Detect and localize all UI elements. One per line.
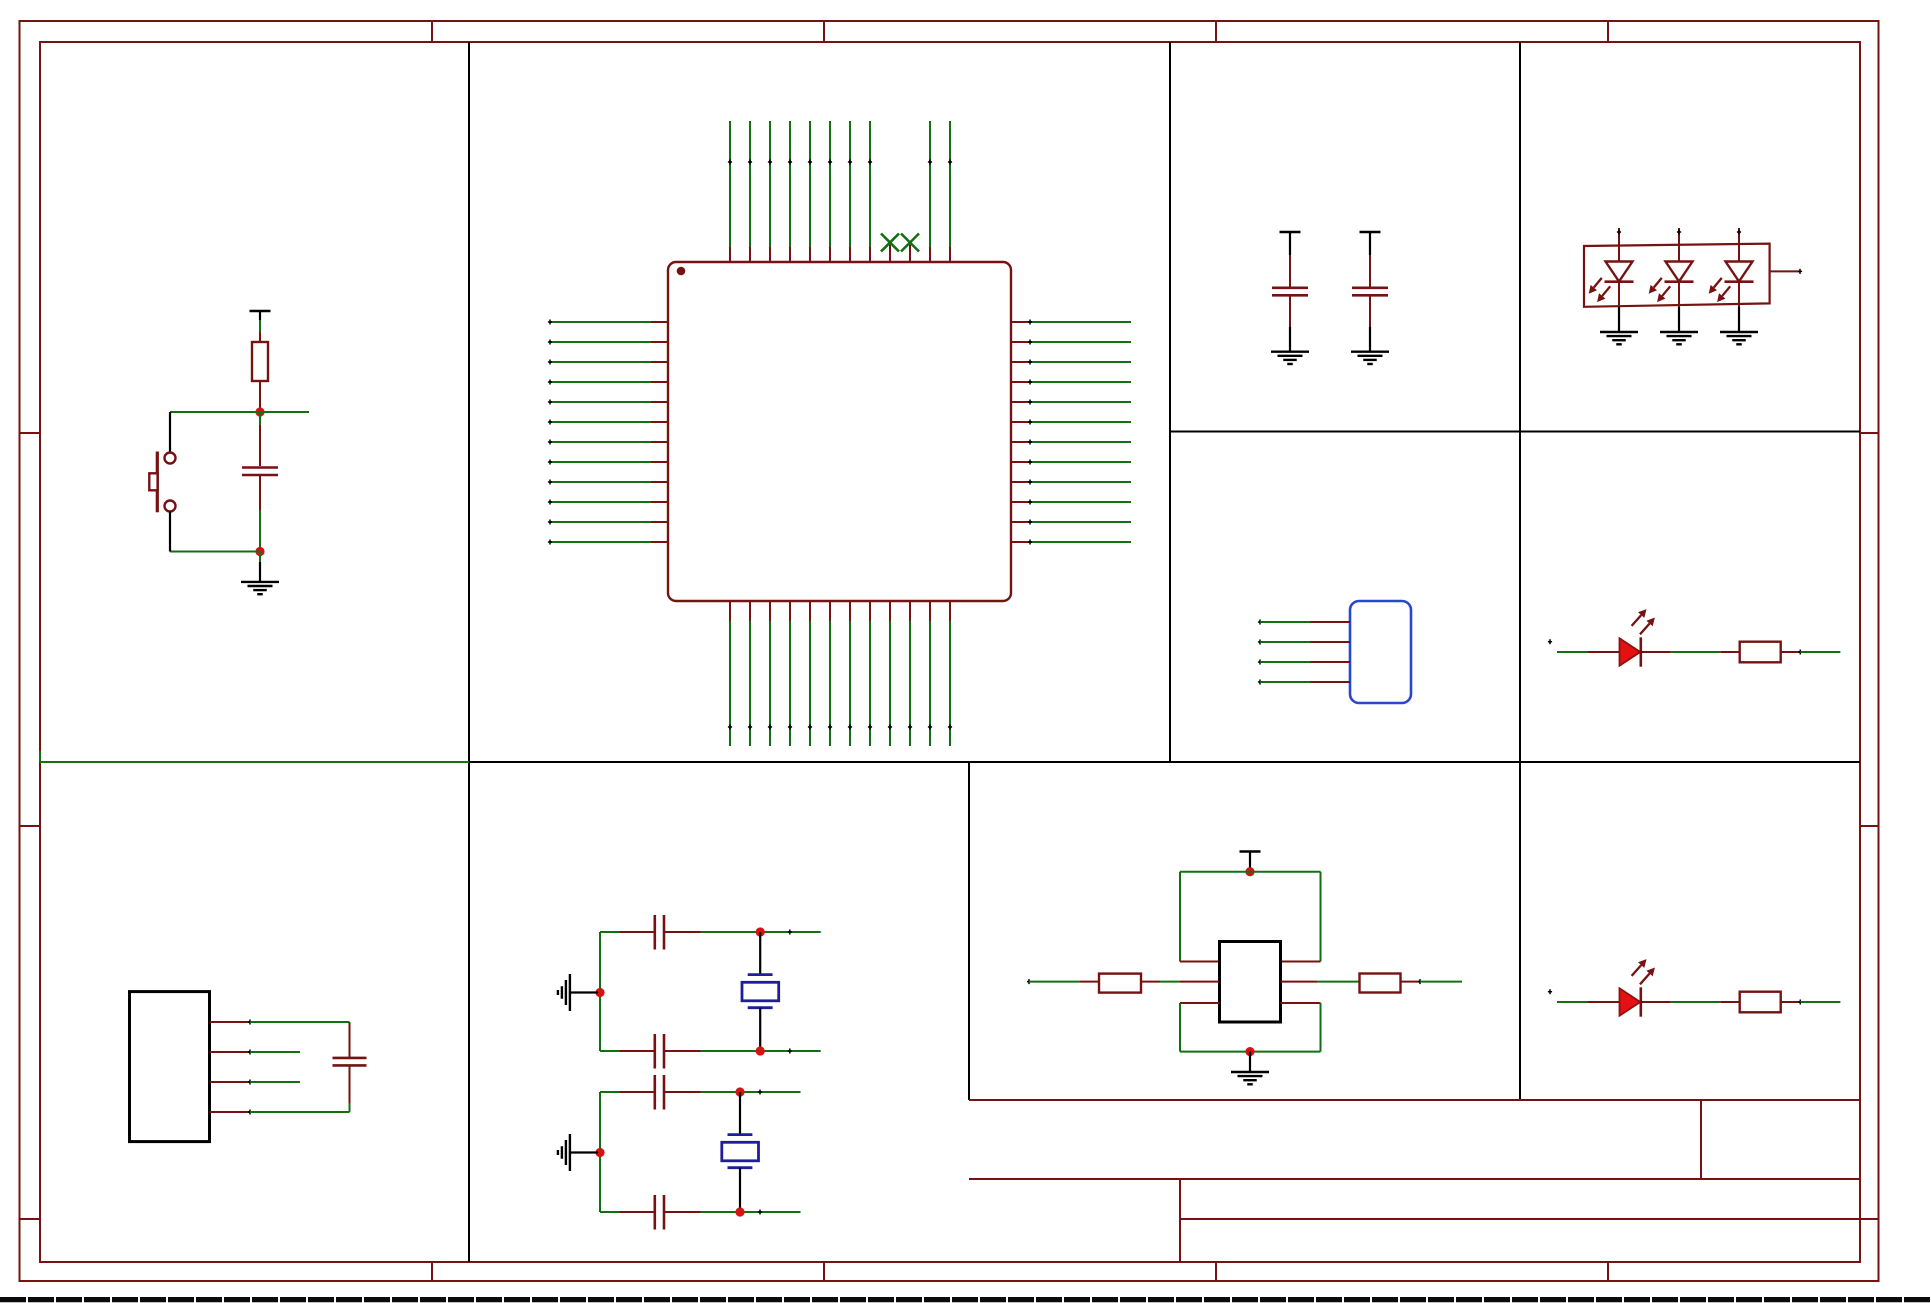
- mcu U1 top pins: [730, 247, 950, 262]
- wire osc out: [1420, 981, 1462, 983]
- connector J1 pins: [1311, 622, 1351, 682]
- title block top line: [969, 1099, 1860, 1101]
- wire end cross R3: [1798, 1000, 1802, 1005]
- led D1 anode cross: [1617, 230, 1621, 235]
- title block third line: [1180, 1218, 1860, 1220]
- wire C4 to pin4: [349, 1104, 351, 1112]
- section divider vertical mid-bottom: [968, 762, 970, 1100]
- led D1 cathode bar: [1605, 280, 1634, 283]
- wire top Y1 b: [701, 931, 821, 933]
- bottom screenshot artifact strip: [0, 1297, 1931, 1302]
- power flag VCC C2: [1280, 232, 1301, 241]
- wire osc top loop: [1180, 872, 1321, 962]
- ground below D1: [1600, 332, 1638, 344]
- resistor R3: [1740, 992, 1781, 1013]
- title block vertical right: [1700, 1100, 1702, 1179]
- wire top Y2 a: [600, 1091, 620, 1093]
- mcu U1 nc pin stubs: [890, 243, 910, 262]
- resistor R4: [1099, 974, 1141, 993]
- wire osc gnd stem: [1249, 1052, 1251, 1072]
- connector J2 body: [130, 992, 210, 1142]
- wire C3 to ground: [1369, 327, 1371, 352]
- pin C4 bottom: [349, 1067, 351, 1104]
- mcu U1 right pins: [1011, 322, 1030, 542]
- capacitor C6: [655, 1034, 664, 1069]
- led D5 triangle: [1620, 988, 1641, 1015]
- junction osc top: [1245, 867, 1254, 876]
- wire anode net D5: [1557, 1001, 1588, 1003]
- led D4 cathode bar: [1640, 637, 1643, 666]
- pin D5 cathode: [1641, 1001, 1671, 1003]
- wire S1 top vertical: [169, 412, 171, 453]
- wire R4 to X1: [1160, 981, 1180, 983]
- ground GND1: [241, 582, 279, 594]
- junction bottom Y2: [735, 1207, 744, 1216]
- power flag VCC C3: [1360, 232, 1381, 241]
- wire VCC to C2: [1289, 241, 1291, 287]
- connector J2 pin crosses: [248, 1020, 252, 1115]
- pin C5 right: [665, 931, 701, 933]
- pin C6 left: [620, 1050, 654, 1052]
- resistor R2: [1740, 642, 1781, 663]
- wire Y2 xtal top: [739, 1092, 741, 1135]
- wire left rail Y1: [599, 932, 601, 1051]
- pin R5 right: [1401, 981, 1421, 983]
- wire R2 out: [1800, 651, 1840, 653]
- wire J2 pin3: [250, 1081, 300, 1083]
- wire top cross Y1: [788, 930, 792, 935]
- capacitor C1: [242, 468, 278, 476]
- pin X1 bottom-right: [1281, 1002, 1321, 1004]
- junction gnd Y2: [595, 1148, 604, 1157]
- wire bottom Y1 a: [600, 1050, 620, 1052]
- section divider horizontal middle: [469, 761, 1860, 763]
- title block vertical left: [1179, 1179, 1181, 1262]
- wire bottom cross Y1: [788, 1049, 792, 1054]
- pin X1 top-right: [1281, 961, 1321, 963]
- crystal Y2 body: [722, 1142, 759, 1161]
- wire bottom Y1 b: [701, 1050, 821, 1052]
- pin C3 bottom: [1369, 297, 1371, 328]
- power flag VCC osc: [1240, 852, 1261, 861]
- mcu U1 left pins: [651, 322, 668, 542]
- pin X1 out: [1281, 981, 1318, 983]
- section divider vertical mid-top: [1169, 42, 1171, 762]
- junction top Y1: [756, 927, 765, 936]
- mcu U1 bottom pin wires: [730, 621, 950, 746]
- title block second line: [969, 1178, 1860, 1180]
- led module right pin cross: [1798, 269, 1802, 274]
- led module outline: [1584, 244, 1770, 307]
- wire J2 pin2: [250, 1051, 300, 1053]
- connector J1 pin wires: [1260, 622, 1311, 682]
- led D1 anode wire: [1618, 228, 1620, 262]
- pin R3 left: [1720, 1001, 1740, 1003]
- ground below C2: [1271, 352, 1309, 364]
- capacitor C4: [333, 1058, 367, 1066]
- junction node GND1: [255, 547, 264, 556]
- wire C1 to GND: [259, 510, 261, 552]
- wire start cross D5: [1548, 989, 1552, 994]
- pin R1 bottom: [259, 381, 261, 412]
- wire bottom Y2 b: [701, 1211, 801, 1213]
- wire J2 pin1: [250, 1021, 350, 1023]
- pin C6 right: [665, 1050, 701, 1052]
- wire R3 out: [1800, 1001, 1840, 1003]
- capacitor C3: [1352, 288, 1388, 296]
- wire J2 pin4: [250, 1111, 350, 1113]
- led D2 cathode bar: [1665, 280, 1694, 283]
- wire RESET to C1: [259, 412, 261, 425]
- pin R4 left: [1079, 981, 1099, 983]
- led module right pin: [1770, 270, 1800, 272]
- led D1 triangle: [1606, 262, 1633, 282]
- wire left rail Y2: [599, 1092, 601, 1212]
- mcu U1 right pin wires: [1030, 322, 1131, 542]
- wire start cross D4: [1548, 639, 1552, 644]
- pin R2 left: [1720, 651, 1740, 653]
- pin C8 right: [665, 1211, 701, 1213]
- wire D4 to R2: [1671, 651, 1720, 653]
- junction osc bottom: [1245, 1047, 1254, 1056]
- crystal Y2 top plate: [728, 1133, 753, 1136]
- wire gnd stem Y1: [571, 991, 599, 993]
- mcu U1 top pin endpoint crosses: [728, 160, 952, 165]
- pin R3 right: [1781, 1001, 1801, 1003]
- ground osc: [1231, 1072, 1269, 1084]
- pin D5 anode: [1588, 1001, 1620, 1003]
- wire osc in: [1029, 981, 1079, 983]
- section divider vertical left: [468, 42, 470, 1262]
- crystal Y1 body: [742, 982, 779, 1001]
- led D3 cathode wire: [1738, 282, 1740, 332]
- capacitor C7: [655, 1075, 664, 1110]
- led D1 cathode wire: [1618, 282, 1620, 332]
- wire VCC to junction: [1249, 861, 1251, 872]
- wire stub at frame: [39, 751, 41, 762]
- led D3 light arrows: [1709, 278, 1731, 302]
- wire osc out cross: [1418, 979, 1422, 984]
- pin C4 top: [349, 1022, 351, 1057]
- mcu U1 no-connect X marks: [881, 234, 919, 252]
- ground below D3: [1720, 332, 1758, 344]
- led D4 triangle: [1620, 638, 1641, 665]
- wire GND net along divider: [40, 761, 469, 763]
- wire VCC to C3: [1369, 241, 1371, 287]
- wire S1 bottom horizontal: [170, 551, 260, 553]
- wire Y2 xtal bottom: [739, 1168, 741, 1212]
- connector J2 pins: [210, 1022, 251, 1112]
- wire osc bottom loop: [1180, 1003, 1321, 1052]
- led D2 anode wire: [1678, 228, 1680, 262]
- wire osc in cross: [1027, 979, 1031, 984]
- led D3 triangle: [1726, 262, 1753, 282]
- led D5 light arrows: [1632, 959, 1655, 984]
- ground left Y1: [558, 974, 570, 1011]
- pin C1 bottom: [259, 476, 261, 510]
- wire top Y2 b: [701, 1091, 801, 1093]
- led D3 cathode bar: [1725, 280, 1754, 283]
- wire top Y1 a: [600, 931, 620, 933]
- mcu U1 left pin wires: [550, 322, 651, 542]
- pin C2 bottom: [1289, 297, 1291, 328]
- pin R1 top: [259, 332, 261, 342]
- pushbutton S1 actuator: [149, 473, 157, 490]
- wire end cross R2: [1798, 650, 1802, 655]
- led D2 triangle: [1666, 262, 1693, 282]
- connector J1 body: [1350, 601, 1411, 703]
- wire D5 to R3: [1671, 1001, 1720, 1003]
- led D2 light arrows: [1649, 278, 1671, 302]
- led D1 light arrows: [1589, 278, 1611, 302]
- led D3 anode wire: [1738, 228, 1740, 262]
- resistor R1: [252, 342, 268, 381]
- wire RESET horizontal: [170, 411, 309, 413]
- crystal Y2 bottom plate: [728, 1166, 753, 1169]
- wire bottom Y2 a: [600, 1211, 620, 1213]
- capacitor C2: [1272, 288, 1308, 296]
- mcu U1 right pin endpoint crosses: [1028, 320, 1032, 545]
- junction top Y2: [735, 1087, 744, 1096]
- ground below D2: [1660, 332, 1698, 344]
- led D5 cathode bar: [1640, 987, 1643, 1016]
- mcu U1 left pin endpoint crosses: [548, 320, 552, 545]
- wire gnd stem Y2: [571, 1151, 599, 1153]
- junction gnd Y1: [595, 988, 604, 997]
- pin X1 bottom-left: [1180, 1002, 1220, 1004]
- mcu U1 bottom pins: [730, 601, 950, 621]
- pushbutton S1 contact top: [165, 453, 176, 464]
- mcu U1 pin-1 dot: [677, 267, 686, 276]
- wire X1 to R5: [1318, 981, 1360, 983]
- pin X1 in: [1180, 981, 1220, 983]
- mcu U1 top pin wires: [730, 121, 950, 247]
- oscillator X1 body: [1220, 942, 1281, 1023]
- wire C2 to ground: [1289, 327, 1291, 352]
- pin C5 left: [620, 931, 654, 933]
- section divider vertical right: [1519, 42, 1521, 1100]
- mcu U1 body: [668, 262, 1011, 601]
- wire top cross Y2: [758, 1090, 762, 1095]
- pin C1 top: [259, 425, 261, 466]
- pin X1 top-left: [1180, 961, 1220, 963]
- junction node RESET: [255, 407, 264, 416]
- crystal Y1 top plate: [748, 973, 773, 976]
- pin R2 right: [1781, 651, 1801, 653]
- pin D4 cathode: [1641, 651, 1671, 653]
- led D2 cathode wire: [1678, 282, 1680, 332]
- resistor R5: [1360, 974, 1401, 993]
- pin C7 left: [620, 1091, 654, 1093]
- wire GND stem: [259, 552, 261, 582]
- power flag VCC reset: [250, 311, 271, 320]
- wire Y1 xtal bottom: [759, 1008, 761, 1051]
- pin D4 anode: [1588, 651, 1620, 653]
- led D2 anode cross: [1677, 230, 1681, 235]
- capacitor C8: [655, 1195, 664, 1230]
- junction bottom Y1: [756, 1046, 765, 1055]
- wire Y1 xtal top: [759, 932, 761, 975]
- led D3 anode cross: [1737, 230, 1741, 235]
- pin R4 right: [1141, 981, 1160, 983]
- pin C7 right: [665, 1091, 701, 1093]
- wire VCC to R1: [259, 320, 261, 332]
- crystal Y1 bottom plate: [748, 1006, 773, 1009]
- section divider horizontal top-right: [1170, 431, 1860, 433]
- ground left Y2: [558, 1134, 570, 1171]
- wire S1 bottom vertical: [169, 512, 171, 552]
- led D4 light arrows: [1632, 609, 1655, 634]
- pushbutton S1 bar: [156, 452, 159, 513]
- pin C8 left: [620, 1211, 654, 1213]
- mcu U1 bottom pin endpoint crosses: [728, 725, 952, 730]
- wire anode net D4: [1557, 651, 1588, 653]
- pushbutton S1 contact bottom: [165, 501, 176, 512]
- connector J1 pin crosses: [1258, 620, 1262, 685]
- capacitor C5: [655, 915, 664, 950]
- ground below C3: [1351, 352, 1389, 364]
- wire bottom cross Y2: [758, 1210, 762, 1215]
